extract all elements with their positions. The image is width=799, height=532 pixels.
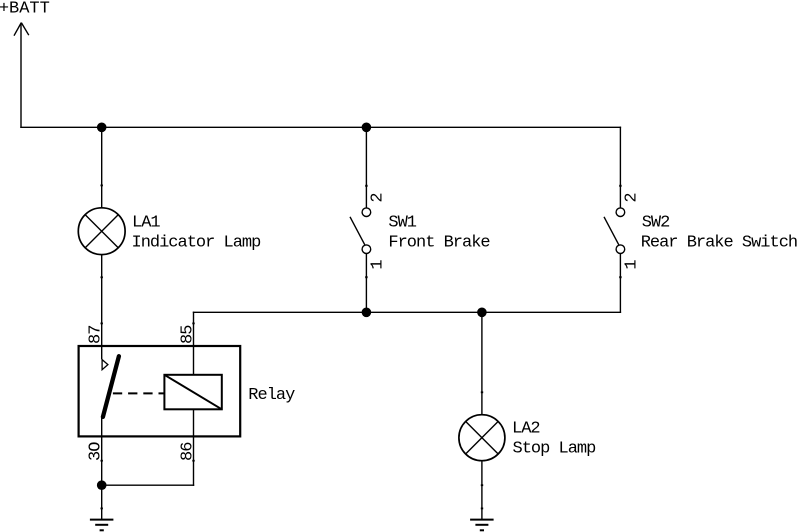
lamp LA1: [78, 208, 125, 255]
svg-text:86: 86: [178, 442, 197, 461]
ground G2: [470, 520, 494, 531]
wire mid bus: [193, 311, 621, 313]
wire LA2 to ground G2: [481, 461, 483, 520]
node junction top bus / LA1: [97, 123, 107, 133]
relay mechanical link dashed: [113, 392, 164, 394]
switch SW1: [350, 208, 371, 254]
wire LA2 drop from mid bus: [481, 312, 483, 415]
wire LA1 drop from top bus: [101, 127, 103, 208]
wire SW1 bottom to mid bus: [365, 254, 367, 313]
switch SW2: [604, 208, 625, 254]
pin tick relay 86 bottom: [192, 460, 194, 462]
svg-text:2: 2: [622, 193, 641, 202]
wire pin 86 to ground junction: [102, 484, 195, 486]
ground G1: [90, 520, 114, 531]
pin tick LA1 top: [101, 185, 103, 187]
node ground junction: [97, 480, 107, 490]
wire SW2 bottom to mid bus: [619, 254, 621, 314]
svg-text:1: 1: [368, 260, 387, 270]
wire relay pin 30 down to ground junction: [101, 416, 103, 485]
svg-text:SW1: SW1: [388, 213, 416, 232]
svg-text:+BATT: +BATT: [0, 0, 50, 19]
pin tick ground G1 top: [101, 508, 103, 510]
svg-text:87: 87: [87, 326, 106, 344]
power flag +BATT arrow: [14, 23, 29, 128]
wire SW2 drop from top bus: [619, 127, 621, 208]
pin tick LA2 top: [481, 391, 483, 393]
wire top bus: [20, 126, 621, 128]
pin tick LA1 bottom: [101, 276, 103, 278]
wire junction to ground G1: [101, 485, 103, 519]
pin tick relay 87 top: [101, 323, 103, 325]
pin tick SW1 bottom: [365, 276, 367, 278]
svg-text:Indicator Lamp: Indicator Lamp: [132, 233, 262, 252]
svg-text:LA1: LA1: [132, 213, 160, 232]
svg-text:Front Brake: Front Brake: [388, 233, 490, 252]
node junction top bus / SW1: [362, 123, 372, 133]
wire LA1 to relay pin 87: [101, 255, 103, 360]
pin tick SW2 bottom: [619, 276, 621, 278]
svg-text:2: 2: [368, 193, 387, 202]
wire SW1 drop from top bus: [365, 127, 367, 208]
relay coil box: [164, 375, 221, 410]
pin tick relay 30 bottom: [101, 460, 103, 462]
pin tick relay 85 top: [192, 323, 194, 325]
pin tick SW1 top: [365, 185, 367, 187]
relay fixed contact triangle: [102, 360, 108, 370]
svg-text:85: 85: [178, 325, 197, 344]
svg-text:Rear Brake Switch: Rear Brake Switch: [641, 233, 797, 252]
svg-text:1: 1: [622, 260, 641, 270]
pin tick LA2 bottom: [481, 484, 483, 486]
relay K1 outline box: [79, 346, 241, 436]
svg-text:Relay: Relay: [248, 386, 295, 405]
pin tick ground G2 top: [481, 508, 483, 510]
svg-text:3O: 3O: [87, 442, 106, 461]
relay contact blade: [103, 356, 119, 417]
node junction mid bus / SW1: [362, 308, 372, 318]
relay coil diagonal: [164, 375, 221, 410]
svg-text:SW2: SW2: [642, 213, 670, 232]
wire relay pin 85 riser: [193, 312, 195, 375]
svg-text:LA2: LA2: [512, 420, 540, 439]
wire relay pin 86 down: [193, 409, 195, 486]
lamp LA2: [459, 415, 505, 461]
pin tick SW2 top: [619, 185, 621, 187]
svg-text:Stop Lamp: Stop Lamp: [513, 440, 597, 459]
node junction mid bus / LA2: [477, 308, 487, 318]
